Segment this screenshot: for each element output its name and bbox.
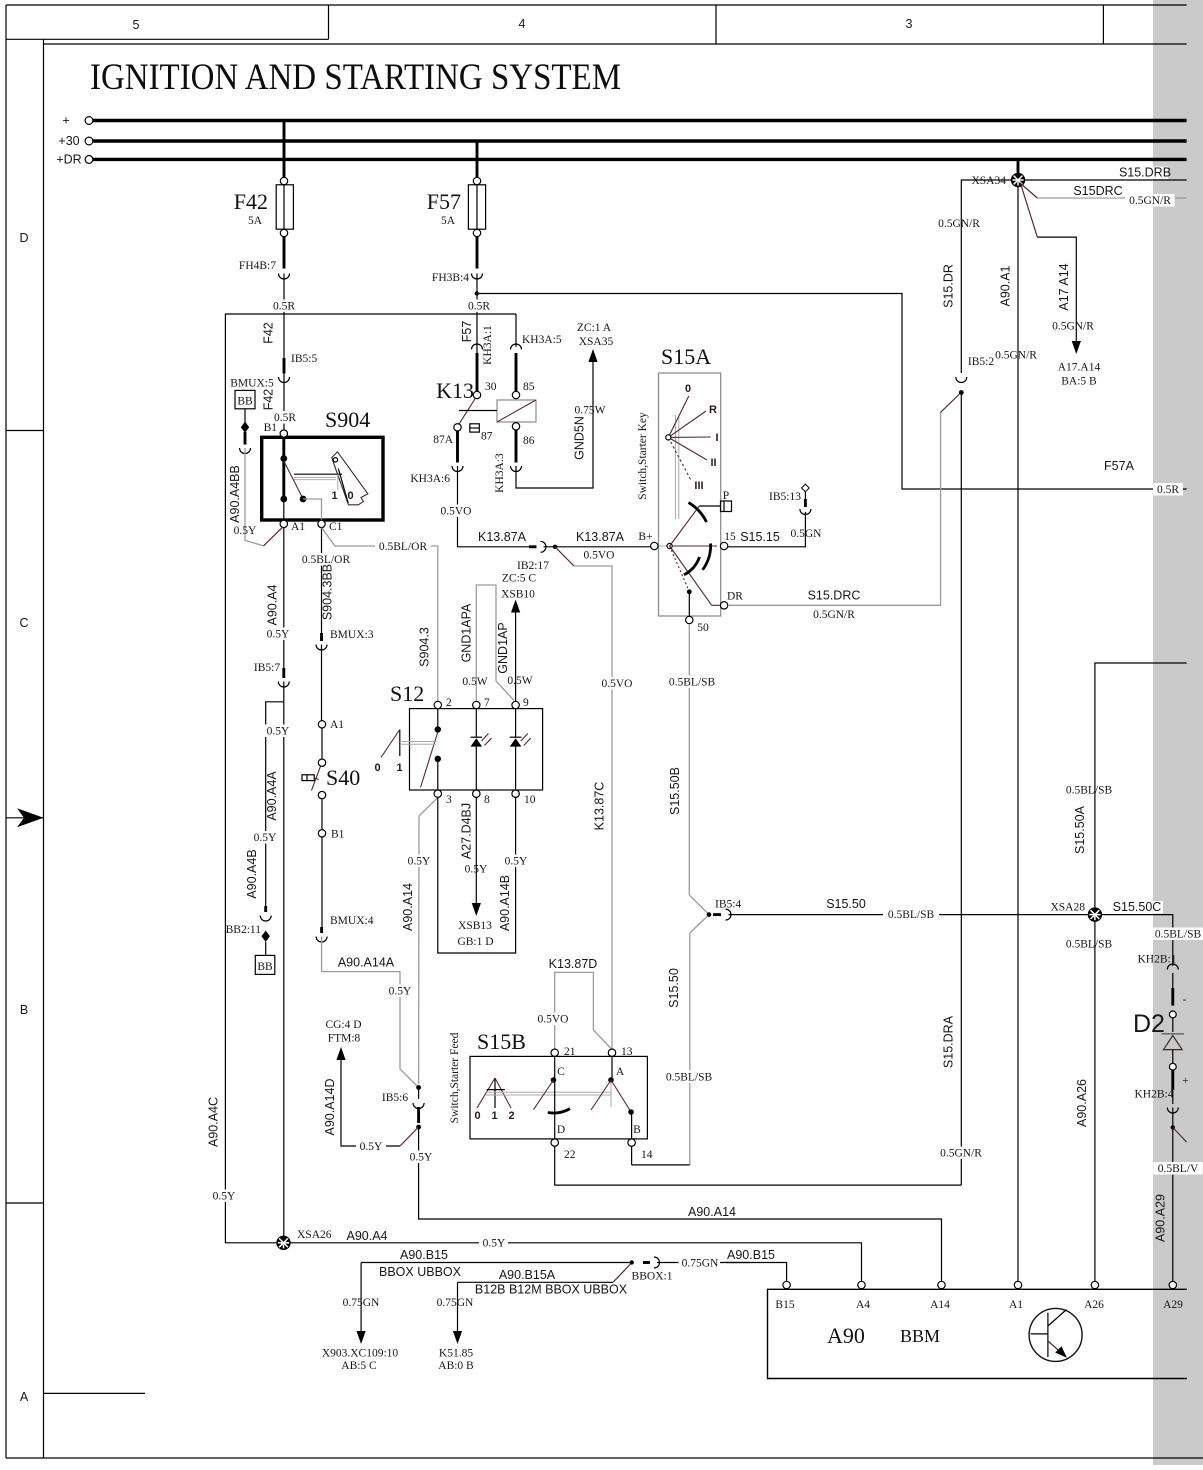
svg-text:BBOX:1: BBOX:1 [632,1271,673,1283]
ground arrow A17.A14 BA:5 B [1058,341,1101,388]
wire B1 to connector BMUX:4 [321,837,323,927]
svg-text:ZC:1 A: ZC:1 A [577,322,612,334]
pin A14 A90 [930,1281,950,1311]
pin 8 S12 [473,790,490,806]
switch arm K13 30-87A [459,399,475,424]
wire S904.3BB from C1 to S40 A1 [298,528,354,633]
connector FH4B:7 [239,260,290,279]
svg-text:0.5VO: 0.5VO [538,1014,569,1026]
svg-text:IB5:13: IB5:13 [769,491,801,503]
svg-text:D: D [557,1124,565,1136]
svg-text:B12B B12M BBOX UBBOX: B12B B12M BBOX UBBOX [475,1283,628,1297]
pin DR S15A [720,591,743,610]
svg-text:BBM: BBM [900,1326,940,1346]
wire A90.A4 to BBM A4 [291,1229,862,1281]
node + supply bus [62,114,1186,128]
pin 10 S12 [512,790,536,806]
svg-text:AB:0 B: AB:0 B [438,1360,474,1372]
pin A4 A90 [856,1281,870,1311]
connector KH3A:5 [511,314,562,391]
pin A29 A90 [1163,1281,1183,1311]
svg-text:A90.A4B: A90.A4B [245,849,259,898]
svg-text:21: 21 [564,1046,576,1058]
pin C1 S904 [318,520,343,533]
svg-text:A29: A29 [1163,1299,1183,1311]
svg-text:0: 0 [685,383,691,395]
wire GND1AP from pin 9 to ground XSB10 [496,612,533,701]
wire GND1APA hook pin7 to pin9 [460,585,515,701]
ground arrow IB2:17 ZC:5 C XSB10 [501,560,549,613]
svg-text:A: A [20,1390,29,1404]
svg-text:A90.A14: A90.A14 [401,883,415,931]
svg-text:+: + [62,114,69,128]
svg-text:C: C [19,616,28,630]
svg-text:IB5:5: IB5:5 [291,353,317,365]
junction K13.87A node [553,545,557,549]
wire S15.50 to XSA28 [729,897,1088,921]
svg-text:D: D [19,231,28,245]
svg-text:14: 14 [641,1149,653,1161]
svg-text:8: 8 [484,794,490,806]
svg-text:A17 A14: A17 A14 [1057,263,1071,310]
svg-text:0.5GN: 0.5GN [791,528,823,540]
svg-text:13: 13 [621,1046,633,1058]
svg-text:0.5R: 0.5R [1157,484,1179,496]
svg-text:15: 15 [724,531,736,543]
svg-text:II: II [710,457,716,469]
svg-text:4: 4 [519,17,526,31]
svg-text:K13.87A: K13.87A [576,530,625,544]
pin 13 S15B [608,1046,632,1078]
svg-text:0.5BL/SB: 0.5BL/SB [666,1072,713,1084]
svg-text:A90.A1: A90.A1 [999,265,1013,306]
wire BB to A1: A90.A4BB [228,409,283,546]
pin 22 S15B [551,1124,576,1161]
svg-text:0.5Y: 0.5Y [254,832,277,844]
S12 diode left [471,709,492,790]
wire S15.50A from right edge [1066,663,1187,908]
pin A1 A90 [1009,1281,1023,1311]
svg-text:+DR: +DR [56,152,81,166]
wire S15.DRA down to S15B D wire [936,393,986,1186]
svg-text:KH2B:4: KH2B:4 [1135,1089,1174,1101]
svg-text:0.5GN/R: 0.5GN/R [995,350,1037,362]
fuse F57 5A [427,177,486,236]
svg-text:DR: DR [727,591,743,603]
svg-text:K51.85: K51.85 [439,1348,473,1360]
wire S15.DR up to XSA34 [938,180,1011,373]
svg-text:F42: F42 [234,189,268,214]
svg-text:B1: B1 [331,829,345,841]
wire A90.A4 to XSA26 [283,682,285,1237]
svg-text:0.5BL/SB: 0.5BL/SB [669,677,716,689]
svg-text:C: C [557,1066,565,1078]
svg-text:A26: A26 [1084,1299,1104,1311]
svg-text:D2: D2 [1133,1010,1165,1038]
svg-text:S904: S904 [325,407,370,432]
svg-text:Switch,Starter Feed: Switch,Starter Feed [449,1032,461,1123]
svg-text:0: 0 [474,1110,480,1122]
wire 86 to connector KH3A:3 [515,430,518,463]
svg-text:S40: S40 [326,765,360,790]
svg-text:1: 1 [396,762,402,774]
svg-text:0.5Y: 0.5Y [483,1238,506,1250]
svg-text:+30: +30 [58,134,79,148]
pin B1 S904 [264,422,288,437]
svg-text:A90.A14B: A90.A14B [498,875,512,931]
fuse F42 5A [234,177,294,236]
wire A90.A14D branch to ground CG:4 D FTM:8 [323,1060,419,1153]
connector BBOX:1 [632,1257,673,1283]
svg-text:0.5Y: 0.5Y [267,726,290,738]
svg-text:85: 85 [523,381,535,393]
svg-text:P: P [723,490,729,502]
svg-text:0.5GN/R: 0.5GN/R [938,218,980,230]
svg-text:ZC:5 C: ZC:5 C [502,573,537,585]
wire 0.5R F42 to S904 B1 [262,274,300,430]
connector IB5:5 [279,353,318,383]
svg-text:IGNITION AND STARTING SYSTEM: IGNITION AND STARTING SYSTEM [90,57,621,98]
pin P S15A [721,490,732,512]
wire A90.A4 from S904 A1 to connector IB5:7 [263,528,293,671]
wire A90.A14 to BBM A14 [406,1127,942,1281]
svg-text:IB5:7: IB5:7 [254,662,280,674]
svg-text:GND5N: GND5N [573,416,587,460]
svg-text:KH3A:6: KH3A:6 [410,473,450,485]
wire S15.DRB to right edge [1025,166,1187,181]
svg-text:BMUX:3: BMUX:3 [330,629,374,641]
wire 0.5R F57 down to K13:30 [464,274,494,392]
svg-text:GB:1 D: GB:1 D [457,936,493,948]
wire A90.B15A [458,1264,631,1297]
svg-text:1: 1 [331,490,337,502]
pin A1 S40 [318,719,344,731]
pin 15 S15A [720,531,736,550]
svg-text:S15.DRC: S15.DRC [808,589,861,603]
S15A upper rotary [666,383,719,519]
svg-text:S15.50A: S15.50A [1073,805,1087,854]
component BB (BB2:11) [255,942,274,975]
svg-text:FH4B:7: FH4B:7 [239,260,276,272]
svg-text:S15.50C: S15.50C [1113,900,1162,914]
svg-text:BB: BB [237,396,253,408]
svg-text:7: 7 [484,697,490,709]
svg-text:III: III [694,480,703,492]
svg-text:2: 2 [446,697,452,709]
pin B+ S15A [638,531,658,550]
svg-text:BBOX UBBOX: BBOX UBBOX [379,1265,462,1279]
svg-text:0.5GN/R: 0.5GN/R [940,1148,982,1160]
S12 internal switch [374,709,441,790]
wire A90.B15 [361,1248,634,1279]
diode D2 [1133,988,1189,1090]
svg-text:K13: K13 [436,378,474,403]
svg-text:A90.A4A: A90.A4A [265,771,279,821]
svg-text:S15.DR: S15.DR [942,264,956,308]
svg-text:0.5GN/R: 0.5GN/R [813,609,855,621]
svg-text:IB5:4: IB5:4 [715,899,741,911]
svg-text:BMUX:4: BMUX:4 [330,915,374,927]
wire A90.A26 from XSA28 to BBM A26 [1066,921,1113,1281]
svg-text:A90: A90 [827,1323,865,1348]
svg-text:A90.A4BB: A90.A4BB [228,465,242,523]
connector FH3B:4 [432,272,483,284]
pin 30 K13 [473,381,496,399]
S40 contacts and arm [302,728,326,799]
svg-text:A4: A4 [856,1299,870,1311]
svg-text:+: + [1182,1075,1189,1087]
svg-text:0.5Y: 0.5Y [267,629,290,641]
node +DR supply bus [56,152,1186,166]
svg-text:0: 0 [374,762,380,774]
svg-text:A1: A1 [1009,1299,1023,1311]
svg-text:0.5R: 0.5R [274,412,296,424]
svg-text:3: 3 [446,794,452,806]
pin A1 S904 [280,520,305,533]
svg-text:A14: A14 [930,1299,950,1311]
svg-text:B15: B15 [775,1299,794,1311]
svg-text:S15DRC: S15DRC [1073,184,1122,198]
svg-text:0.5BL/V: 0.5BL/V [1158,1163,1199,1175]
svg-text:R: R [709,404,717,416]
svg-text:0.75GN: 0.75GN [682,1258,719,1270]
connector KH3A:3 [494,453,522,493]
svg-text:A90.A4: A90.A4 [266,584,280,625]
svg-text:IB5:6: IB5:6 [382,1092,408,1104]
svg-text:1: 1 [491,1110,497,1122]
wire S15DRC gray branch to right edge [1020,183,1187,207]
connector KH3A:6 [410,466,463,485]
wire 50 to IB5:4 gray S15.50B [661,624,720,1165]
S15B wiper C [534,1056,571,1139]
connector IB5:13 [769,484,811,514]
connector IB5:6 [382,1085,424,1129]
svg-text:0.5W: 0.5W [462,676,487,688]
pin 7 S12 [473,697,490,709]
wire pin14 to S15.50 [631,1146,633,1165]
svg-text:0.5BL/SB: 0.5BL/SB [888,909,935,921]
svg-text:CG:4 D: CG:4 D [325,1019,361,1031]
S904 internal contacts [280,437,321,520]
svg-text:3: 3 [906,17,913,31]
svg-text:XSA26: XSA26 [297,1229,332,1241]
svg-text:A1: A1 [330,719,344,731]
svg-text:0.5VO: 0.5VO [441,506,472,518]
svg-text:0.5VO: 0.5VO [602,678,633,690]
svg-text:A90.B15: A90.B15 [727,1248,775,1262]
svg-text:S15A: S15A [661,344,711,369]
wire pin3 to pin10 U link [438,797,516,953]
svg-text:I: I [715,432,718,444]
wire 0.5VO K13.87A [438,466,530,547]
svg-text:0.5GN/R: 0.5GN/R [1052,321,1094,333]
svg-text:0.5BL/OR: 0.5BL/OR [379,541,428,553]
svg-text:A27.D4BJ: A27.D4BJ [460,803,474,859]
pin 21 S15B [551,1046,576,1078]
ground arrow ZC:1 A XSA35 [577,322,614,362]
svg-text:A90.A26: A90.A26 [1075,1079,1089,1127]
relay coil K13 [459,400,536,422]
pin 87A K13 [433,424,461,446]
S12 diode right [510,709,531,790]
wire S15.15 [728,512,822,547]
pin 50 S15A [686,616,709,634]
svg-text:S12: S12 [390,681,424,706]
svg-text:A90.A4: A90.A4 [346,1229,387,1243]
pin 86 K13 [512,423,534,447]
component BB (BMUX:5) [235,390,255,408]
wire pin22 to S15.DRA [555,1146,962,1185]
svg-text:-: - [1183,994,1187,1006]
svg-text:0.5Y: 0.5Y [389,986,412,998]
svg-text:B1: B1 [264,422,278,434]
connector IB5:7 [254,662,289,687]
wire A90.A4A branch to BB [245,702,293,906]
wire GND5N to ground XSA35 [516,362,606,488]
svg-text:0.5BL/SB: 0.5BL/SB [1155,929,1202,941]
junction XSA28 [1050,902,1102,922]
svg-text:0.75GN: 0.75GN [343,1297,380,1309]
junction XSA26 [276,1229,331,1250]
wire A90.A1 from XSA34 to BBM A1 [995,187,1037,1281]
wire S15.DRC gray from DR up to IB5:2 [728,394,960,621]
svg-text:A90.B15A: A90.B15A [499,1268,556,1282]
connector BMUX:3 [316,629,374,650]
wire A17 A14 branch [1021,185,1094,341]
svg-text:F42: F42 [262,389,276,411]
wire K13.87A to S15A B+ [544,530,651,562]
svg-text:5A: 5A [248,215,263,227]
svg-text:FTM:8: FTM:8 [328,1033,361,1045]
svg-text:KH3A:3: KH3A:3 [494,453,506,493]
svg-text:30: 30 [485,381,497,393]
wire K13.87C to S15B:13 [555,547,635,1049]
svg-text:K13.87D: K13.87D [549,957,598,971]
transistor Q1 inside A90 [1029,1308,1082,1361]
svg-text:5A: 5A [441,215,456,227]
svg-text:2: 2 [508,1110,514,1122]
wire S904.3 gray from C1 to S12:2 [322,528,438,701]
svg-text:BB2:11: BB2:11 [226,924,262,936]
svg-text:10: 10 [524,794,536,806]
wire K13.87D jumper [535,957,612,1049]
pin 9 S12 [512,697,529,709]
S15A lower rotary B+ [658,503,721,617]
junction F57 node [475,291,479,295]
svg-text:0.5BL/SB: 0.5BL/SB [1066,785,1113,797]
svg-text:0.5W: 0.5W [507,675,532,687]
wire K51.85 branch [437,1282,474,1372]
svg-text:A90.A14A: A90.A14A [338,956,395,970]
svg-text:A17.A14: A17.A14 [1058,362,1101,374]
S15B wiper A [591,1056,634,1139]
pin 2 S12 [434,697,452,709]
svg-text:XSB10: XSB10 [501,589,535,601]
connector IB5:4 [713,899,741,921]
svg-text:IB2:17: IB2:17 [517,560,549,572]
svg-text:A90.A29: A90.A29 [1154,1194,1168,1242]
svg-text:0.5Y: 0.5Y [360,1141,383,1153]
svg-text:AB:5 C: AB:5 C [341,1360,377,1372]
svg-text:Switch,Starter Key: Switch,Starter Key [637,412,649,500]
wire A90.A29 to BBM A29 [1153,1108,1203,1282]
pin B1 S40 [318,799,344,841]
svg-text:GND1APA: GND1APA [460,603,474,662]
svg-text:S15.50B: S15.50B [668,767,682,815]
control unit A90 BBM [768,1289,1187,1378]
connector KH2B:1 [1138,954,1179,989]
svg-text:KH2B:1: KH2B:1 [1138,954,1177,966]
svg-text:K13.87A: K13.87A [478,530,527,544]
svg-text:87: 87 [481,431,493,443]
wire A27.D4BJ from pin 8 to ground XSB13 [460,797,489,903]
svg-text:K13.87C: K13.87C [593,782,607,831]
svg-text:0.5BL/SB: 0.5BL/SB [1066,939,1113,951]
svg-text:B+: B+ [638,531,652,543]
svg-text:XSA35: XSA35 [579,336,614,348]
svg-text:A: A [616,1066,625,1078]
svg-text:X903.XC109:10: X903.XC109:10 [322,1348,399,1360]
svg-text:0.5Y: 0.5Y [213,1191,236,1203]
svg-text:0.5Y: 0.5Y [410,1152,433,1164]
ground arrow CG:4 D FTM:8 [325,1019,361,1060]
ground arrow XSB13 GB:1 D [457,903,493,948]
svg-text:0: 0 [347,490,353,502]
svg-text:IB5:2: IB5:2 [968,356,994,368]
svg-text:A90.A14: A90.A14 [688,1205,736,1219]
svg-text:C1: C1 [329,521,343,533]
wire X903 branch [322,1263,399,1373]
svg-text:S15.DRA: S15.DRA [942,1015,956,1068]
svg-text:0.5Y: 0.5Y [505,856,528,868]
svg-text:B: B [633,1124,641,1136]
svg-text:S15.50: S15.50 [667,968,681,1008]
node +30 supply bus [58,134,1186,148]
pin A26 A90 [1084,1281,1104,1311]
svg-text:0.75W: 0.75W [575,405,606,417]
svg-text:S15B: S15B [477,1029,526,1054]
connector K13.87A inline [529,541,546,552]
svg-text:B: B [20,1003,28,1017]
svg-text:BB: BB [257,961,273,973]
svg-text:50: 50 [697,622,709,634]
svg-text:0.5Y: 0.5Y [234,525,257,537]
connector KH2B:4 [1135,1089,1179,1114]
svg-text:F57A: F57A [1104,459,1135,473]
svg-text:A90.A4C: A90.A4C [207,1097,221,1147]
wire F57 to connector FH3B:4 [476,237,479,269]
svg-text:A1: A1 [291,521,305,533]
junction XSA34 [971,161,1025,187]
pin 14 S15B [628,1124,653,1161]
svg-text:KH3A:1: KH3A:1 [482,325,494,365]
svg-text:9: 9 [523,697,529,709]
svg-text:KH3A:5: KH3A:5 [522,334,562,346]
svg-text:BA:5 B: BA:5 B [1061,376,1097,388]
svg-text:0.5VO: 0.5VO [584,550,615,562]
wire 87A to connector KH3A:6 [456,431,459,463]
S904 pedal symbol [294,452,368,505]
svg-text:0.5R: 0.5R [273,301,295,313]
wire F42 to connector FH4B:7 [283,237,286,269]
connector BMUX:4 [316,915,374,942]
svg-text:A90.B15: A90.B15 [400,1248,448,1262]
svg-text:S904.3BB: S904.3BB [321,564,335,620]
wire A90.B15 to BBM B15 [657,1248,787,1281]
svg-text:F57: F57 [460,321,474,343]
svg-text:87A: 87A [433,434,454,446]
svg-text:S15.DRB: S15.DRB [1119,166,1171,180]
